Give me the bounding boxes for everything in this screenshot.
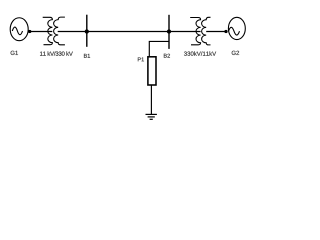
wire T2 to G2 xyxy=(206,31,226,33)
junction dot at G2 terminal xyxy=(224,30,227,33)
wire G1 to T1 xyxy=(30,31,53,33)
junction dot at G1 terminal xyxy=(28,30,31,33)
wire T1 to bus B1 xyxy=(58,31,87,33)
transformer T2 secondary winding xyxy=(202,17,211,45)
label G2 xyxy=(232,51,239,55)
label P1 xyxy=(138,57,144,61)
transformer T1 primary winding xyxy=(43,17,53,44)
wire B1 to B2 xyxy=(87,31,169,33)
load P1 xyxy=(148,57,156,85)
transformer T2 primary winding xyxy=(190,18,200,45)
ground xyxy=(146,114,157,119)
generator G2 xyxy=(228,17,245,39)
label 11 kV/330 kV xyxy=(40,51,73,55)
wire load to ground xyxy=(150,85,152,114)
label B1 xyxy=(84,54,90,58)
bus B1 xyxy=(86,15,88,47)
generator G1 xyxy=(10,18,28,41)
wire B2 to T2 xyxy=(169,31,201,33)
transformer T1 secondary winding xyxy=(54,17,65,45)
junction dot B1 xyxy=(85,29,89,33)
label B2 xyxy=(164,54,170,58)
wire B2 to load P1 xyxy=(149,41,169,56)
bus B2 xyxy=(168,15,170,49)
label G1 xyxy=(11,51,18,55)
junction dot B2 xyxy=(167,29,171,33)
label 330kV/11kV xyxy=(184,51,216,55)
